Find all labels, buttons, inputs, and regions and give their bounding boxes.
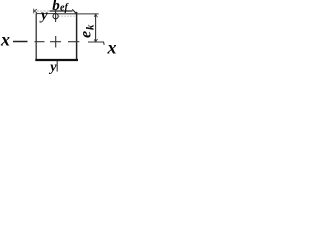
dimension b_ef line left part <box>34 10 50 12</box>
axis y centerline segment top <box>55 10 57 22</box>
dimension e_k line <box>95 14 97 42</box>
dimension e_k bottom arrow <box>94 39 97 42</box>
dimension e_k leader line <box>77 13 99 15</box>
dimension b_ef right arrow <box>72 9 76 13</box>
dimension b_ef left arrow <box>34 9 37 14</box>
svg-text:k: k <box>85 24 97 30</box>
svg-text:y: y <box>48 60 57 75</box>
svg-text:x: x <box>0 30 10 50</box>
dashed line from circle to right edge <box>59 15 76 17</box>
section outline bottom edge <box>35 59 78 61</box>
section outline left edge <box>35 13 37 60</box>
svg-text:y: y <box>39 8 48 24</box>
svg-text:x: x <box>107 38 117 58</box>
dimension e_k label <box>78 24 97 38</box>
axis x centerline dash left <box>13 41 28 43</box>
dimension e_k top arrow <box>94 14 97 17</box>
svg-text:e: e <box>78 31 95 38</box>
axis x centerline segment right <box>88 42 104 45</box>
anchor point circle <box>53 14 58 19</box>
dimension b_ef line right part <box>50 10 73 12</box>
section outline right edge <box>76 12 78 61</box>
section outline top edge <box>36 13 57 15</box>
axis y centerline segment center <box>55 36 57 48</box>
background <box>0 0 118 78</box>
axis y centerline segment bottom <box>56 61 58 72</box>
axis x centerline segment crossing right edge <box>68 41 79 43</box>
axis x centerline segment center <box>50 41 61 43</box>
axis x centerline segment crossing left edge <box>35 41 45 43</box>
